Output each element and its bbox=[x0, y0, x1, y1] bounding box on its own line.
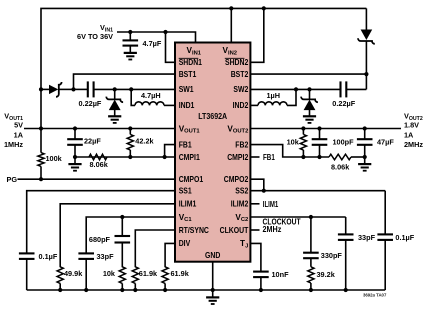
svg-text:0.22µF: 0.22µF bbox=[79, 99, 102, 108]
svg-text:CMPO2: CMPO2 bbox=[224, 175, 249, 184]
svg-text:1A: 1A bbox=[404, 131, 414, 140]
svg-text:0.1µF: 0.1µF bbox=[395, 233, 414, 242]
svg-text:ILIM1: ILIM1 bbox=[179, 200, 197, 209]
resistor 61.9k RT/SYNC bbox=[135, 230, 175, 267]
node ILIM1 net label at ILIM2 bbox=[250, 203, 259, 205]
svg-text:ILIM1: ILIM1 bbox=[263, 200, 279, 209]
svg-text:33pF: 33pF bbox=[97, 252, 115, 261]
op-amp U1 LT3692A IC body bbox=[175, 43, 250, 262]
svg-text:47µF: 47µF bbox=[377, 137, 394, 146]
diode D2 catch schottky ch1 bbox=[113, 87, 117, 91]
capacitor 0.22uF boost ch1 bbox=[74, 88, 88, 90]
svg-text:5V: 5V bbox=[14, 120, 23, 129]
svg-text:1µH: 1µH bbox=[267, 91, 281, 100]
wire CMPO2 to SS2 tie bbox=[250, 179, 263, 191]
capacitor 0.1uF SS2 bbox=[384, 191, 386, 235]
svg-text:42.2k: 42.2k bbox=[135, 137, 154, 146]
wire GND pin bbox=[212, 262, 214, 290]
wire VC2 row bbox=[250, 216, 345, 218]
resistor 100k PG pull-up bbox=[38, 153, 44, 167]
wire FB1 divider rail bbox=[75, 156, 175, 158]
svg-text:6V TO 36V: 6V TO 36V bbox=[77, 32, 113, 41]
svg-text:PG: PG bbox=[7, 175, 18, 184]
svg-text:SS1: SS1 bbox=[179, 187, 192, 196]
svg-text:CLKOUT: CLKOUT bbox=[220, 226, 249, 235]
svg-text:LT3692A: LT3692A bbox=[198, 112, 227, 121]
ground at 22uF bbox=[74, 157, 76, 164]
resistor 49.9k ILIM1 bbox=[60, 204, 175, 267]
svg-text:SHDN1: SHDN1 bbox=[179, 58, 203, 67]
wire BST2 row bbox=[250, 73, 366, 75]
ground under 4.7uF bbox=[124, 52, 137, 54]
ground at 47uF bbox=[363, 155, 367, 159]
capacitor 47uF output ch2 bbox=[363, 126, 367, 130]
svg-text:100k: 100k bbox=[46, 154, 63, 163]
capacitor 100pF feedback ch2 bbox=[317, 126, 321, 130]
wire SHDN2 drop from 5V rail bbox=[250, 8, 263, 62]
ground under catch diode ch2 bbox=[303, 115, 316, 117]
resistor 61.9k DIV bbox=[165, 243, 175, 267]
svg-text:BST2: BST2 bbox=[231, 70, 249, 79]
svg-text:4.7µH: 4.7µH bbox=[141, 91, 161, 100]
capacitor 33pF VC1 bbox=[86, 217, 175, 253]
svg-text:GND: GND bbox=[205, 251, 220, 260]
capacitor 33pF VC2 bbox=[345, 217, 347, 234]
svg-text:SW1: SW1 bbox=[179, 85, 194, 94]
svg-text:CMPI2: CMPI2 bbox=[227, 153, 248, 162]
svg-text:BST1: BST1 bbox=[179, 70, 197, 79]
svg-text:100pF: 100pF bbox=[333, 137, 355, 146]
node CLOCKOUT label at CLKOUT bbox=[250, 229, 259, 231]
wire VOUT1 top rail bbox=[41, 8, 366, 152]
svg-text:0.22µF: 0.22µF bbox=[332, 99, 355, 108]
diode D3 boost schottky ch2 bbox=[365, 8, 367, 29]
svg-text:IND2: IND2 bbox=[233, 101, 249, 110]
wire VIN1 rail bbox=[117, 32, 196, 43]
svg-text:FB1: FB1 bbox=[179, 140, 192, 149]
wire VOUT2 row bbox=[250, 128, 401, 130]
svg-text:1A: 1A bbox=[14, 131, 24, 140]
wire SS2 row bbox=[250, 190, 385, 192]
inductor L1 4.7uH bbox=[129, 87, 133, 91]
capacitor 0.1uF SS1 bbox=[27, 191, 175, 254]
svg-text:10k: 10k bbox=[103, 269, 116, 278]
svg-text:FB1: FB1 bbox=[263, 153, 275, 162]
svg-text:1.8V: 1.8V bbox=[404, 120, 419, 129]
svg-text:ILIM2: ILIM2 bbox=[231, 200, 249, 209]
svg-text:22µF: 22µF bbox=[84, 137, 101, 146]
svg-text:4.7µF: 4.7µF bbox=[143, 39, 162, 48]
capacitor 4.7uF VIN1 bypass bbox=[129, 32, 131, 40]
wire SW2 bbox=[250, 88, 309, 90]
capacitor 330pF VC2 comp bbox=[309, 215, 313, 219]
svg-text:0.1µF: 0.1µF bbox=[39, 252, 58, 261]
svg-text:10k: 10k bbox=[287, 137, 300, 146]
ground symbol main bbox=[212, 290, 214, 297]
wire VIN2 drop from 5V rail bbox=[230, 8, 232, 42]
resistor 10k feedback top ch2 bbox=[301, 126, 305, 130]
svg-text:61.9k: 61.9k bbox=[171, 269, 190, 278]
capacitor 680pF VC1 comp bbox=[120, 215, 124, 219]
capacitor 22uF output ch1 bbox=[73, 126, 77, 130]
svg-text:61.9k: 61.9k bbox=[139, 269, 158, 278]
capacitor 10nF TJ bbox=[250, 243, 261, 271]
svg-text:2MHz: 2MHz bbox=[404, 140, 423, 149]
ground under catch diode ch1 bbox=[108, 115, 121, 117]
svg-text:39.2k: 39.2k bbox=[317, 270, 336, 279]
svg-text:CMPO1: CMPO1 bbox=[179, 175, 204, 184]
wire FB1 pin step bbox=[165, 145, 175, 157]
svg-text:IND1: IND1 bbox=[179, 101, 195, 110]
wire BST1 bbox=[74, 74, 176, 89]
wire SHDN1 tie to VIN1 bbox=[166, 32, 176, 62]
svg-text:3692a TA07: 3692a TA07 bbox=[363, 293, 387, 298]
resistor 39.2k VC2 comp bbox=[308, 267, 314, 283]
inductor L2 1uH bbox=[294, 87, 298, 91]
svg-text:CMPI1: CMPI1 bbox=[179, 153, 200, 162]
svg-text:2MHz: 2MHz bbox=[263, 225, 282, 234]
svg-text:680pF: 680pF bbox=[89, 235, 111, 244]
svg-text:33pF: 33pF bbox=[358, 233, 376, 242]
svg-text:330pF: 330pF bbox=[321, 251, 343, 260]
svg-text:RT/SYNC: RT/SYNC bbox=[179, 226, 209, 235]
svg-text:DIV: DIV bbox=[179, 239, 191, 248]
svg-text:10nF: 10nF bbox=[272, 270, 290, 279]
capacitor 0.22uF boost ch2 bbox=[365, 74, 367, 89]
wire SW1 bbox=[115, 88, 175, 90]
svg-text:FB2: FB2 bbox=[235, 140, 248, 149]
resistor 8.06k feedback bottom ch1 bbox=[89, 154, 107, 160]
node FB1 net label at CMPI2 bbox=[250, 156, 259, 158]
wire VOUT1 row bbox=[24, 128, 175, 130]
svg-text:8.06k: 8.06k bbox=[90, 160, 109, 169]
svg-text:SHDN2: SHDN2 bbox=[225, 58, 249, 67]
wire PG row bbox=[18, 178, 176, 180]
svg-text:1MHz: 1MHz bbox=[4, 140, 23, 149]
svg-text:SS2: SS2 bbox=[235, 187, 248, 196]
svg-text:8.06k: 8.06k bbox=[331, 162, 350, 171]
resistor 42.2k feedback top ch1 bbox=[128, 126, 132, 130]
resistor 10k VC1 comp bbox=[119, 267, 125, 284]
wire FB2 pin step bbox=[250, 145, 303, 157]
resistor 8.06k feedback bottom ch2 bbox=[329, 154, 351, 160]
svg-text:49.9k: 49.9k bbox=[64, 269, 83, 278]
diode D1 boost schottky ch1 bbox=[41, 88, 49, 90]
diode D4 catch schottky ch2 bbox=[307, 87, 311, 91]
svg-text:SW2: SW2 bbox=[233, 85, 248, 94]
wire ground rail bbox=[27, 289, 386, 291]
